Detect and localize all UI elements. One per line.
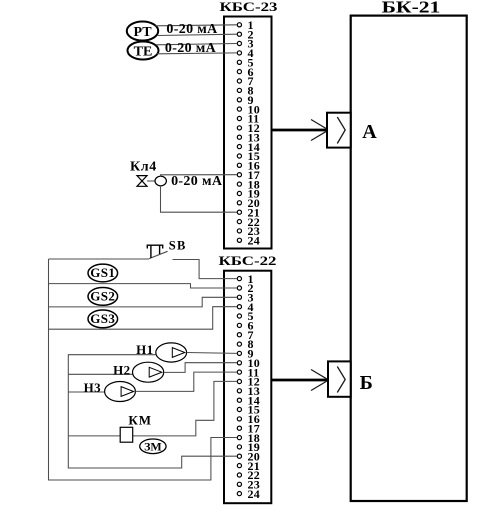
wire Kl4 to 21 (161, 186, 238, 212)
wire H1 to 9 (187, 352, 237, 355)
terminal КБС-22 pin 12 (237, 379, 241, 383)
terminal КБС-23 pin 2 (237, 32, 241, 36)
block KBS-22 (219, 255, 277, 504)
terminal КБС-22 pin 19 (237, 445, 241, 449)
wire GS3 to 4 (49, 307, 238, 330)
sensor GS2 (88, 288, 118, 306)
terminal КБС-22 pin 4 (237, 305, 241, 309)
svg-text:SB: SB (169, 239, 187, 253)
terminal КБС-23 pin 24 (237, 238, 241, 242)
terminal КБС-23 pin 8 (237, 88, 241, 92)
terminal КБС-22 pin 6 (237, 323, 241, 327)
arrow B (271, 361, 373, 396)
pump H1 (136, 342, 187, 362)
terminal КБС-22 pin 14 (237, 398, 241, 402)
svg-text:GS3: GS3 (90, 311, 115, 326)
terminal КБС-23 pin 1 (237, 23, 241, 27)
svg-text:РТ: РТ (133, 25, 152, 40)
terminal КБС-23 pin 9 (237, 98, 241, 102)
wire to H3 (68, 391, 104, 393)
wire valve-actuator (147, 180, 155, 182)
terminal КБС-22 pin 20 (237, 454, 241, 458)
wire SB to terminal 1 (173, 260, 238, 279)
wire PT to 2 (157, 34, 237, 35)
terminal КБС-23 pin 3 (237, 41, 241, 45)
svg-text:Н1: Н1 (136, 342, 153, 357)
terminal КБС-23 pin 12 (237, 126, 241, 130)
wire TE to 4 (157, 52, 237, 55)
sensor TE (128, 42, 159, 60)
svg-text:Б: Б (360, 372, 373, 394)
inner bus wire (68, 355, 237, 468)
terminal КБС-22 pin 7 (237, 333, 241, 337)
sensor PT (127, 22, 158, 41)
block KBS-23 (220, 1, 279, 249)
terminal КБС-22 pin 5 (237, 314, 241, 318)
terminal КБС-23 pin 13 (237, 135, 241, 139)
terminal КБС-23 pin 16 (237, 163, 241, 167)
terminal КБС-22 pin 23 (237, 482, 241, 486)
terminal КБС-23 pin 6 (237, 70, 241, 74)
terminal КБС-23 pin 23 (237, 229, 241, 233)
terminal КБС-23 pin 4 (237, 51, 241, 55)
sensor GS1 (88, 264, 118, 282)
svg-text:ТЕ: ТЕ (134, 45, 153, 60)
pump H2 (113, 362, 164, 382)
svg-text:Н3: Н3 (84, 380, 102, 395)
terminal КБС-23 pin 10 (237, 107, 241, 111)
terminal КБС-23 pin 21 (237, 210, 241, 214)
wire PT to 1 (156, 25, 238, 26)
svg-text:КБС-23: КБС-23 (220, 1, 279, 15)
arrow A (272, 113, 378, 148)
terminal КБС-22 pin 18 (237, 436, 241, 440)
terminal КБС-23 pin 11 (237, 116, 241, 120)
svg-text:БК-21: БК-21 (382, 0, 441, 17)
svg-text:0-20 мА: 0-20 мА (171, 174, 223, 189)
terminal КБС-22 pin 3 (237, 295, 241, 299)
terminal КБС-22 pin 24 (237, 492, 241, 496)
svg-text:GS1: GS1 (90, 265, 115, 280)
terminal КБС-22 pin 11 (237, 370, 241, 374)
contactor KM (120, 412, 152, 442)
terminal КБС-23 pin 15 (237, 154, 241, 158)
svg-text:КМ: КМ (128, 412, 152, 427)
terminal КБС-23 pin 19 (237, 191, 241, 195)
svg-text:0-20 мА: 0-20 мА (165, 41, 217, 56)
terminal КБС-22 pin 2 (237, 286, 241, 290)
svg-text:ЗМ: ЗМ (144, 440, 162, 454)
sensor GS3 (88, 310, 118, 328)
wire GS2 to 3 (49, 297, 238, 307)
svg-text:А: А (362, 121, 377, 143)
wire GS1 to 2 (49, 284, 238, 288)
switch SB contact (149, 251, 168, 258)
wire to H2 (68, 373, 132, 375)
terminal КБС-22 pin 15 (237, 407, 241, 411)
wire to KM (68, 435, 120, 437)
switch SB leads (49, 258, 150, 260)
terminal КБС-22 pin 21 (237, 464, 241, 468)
terminal КБС-23 pin 14 (237, 145, 241, 149)
terminal КБС-22 pin 1 (237, 277, 241, 281)
pump H3 (84, 380, 136, 402)
valve Kl4 (137, 176, 147, 187)
terminal КБС-22 pin 13 (237, 389, 241, 393)
wire Kl4 to 17 (161, 175, 238, 177)
svg-text:GS2: GS2 (90, 288, 115, 303)
switch SB actuator (147, 245, 162, 258)
terminal КБС-22 pin 16 (237, 417, 241, 421)
terminal КБС-23 pin 5 (237, 60, 241, 64)
terminal КБС-22 pin 9 (237, 351, 241, 355)
svg-text:24: 24 (248, 487, 261, 501)
terminal КБС-23 pin 22 (237, 220, 241, 224)
actuator circle (155, 176, 166, 186)
terminal КБС-23 pin 20 (237, 201, 241, 205)
terminal КБС-22 pin 10 (237, 361, 241, 365)
terminal КБС-23 pin 7 (237, 79, 241, 83)
terminal КБС-22 pin 17 (237, 426, 241, 430)
svg-text:0-20 мА: 0-20 мА (166, 22, 218, 37)
terminal КБС-23 pin 17 (237, 173, 241, 177)
terminals KBS-23 (237, 18, 260, 248)
svg-text:КБС-22: КБС-22 (219, 255, 277, 269)
wire 12 to KM (133, 381, 237, 436)
motor ZM (140, 439, 166, 454)
wire H3 to 11 (135, 372, 237, 391)
wire TE to 3 (156, 44, 237, 45)
wire H2 to 10 (164, 363, 237, 373)
block BK-21 (351, 0, 467, 501)
terminal КБС-22 pin 8 (237, 342, 241, 346)
terminal КБС-23 pin 18 (237, 182, 241, 186)
svg-text:24: 24 (248, 234, 261, 248)
terminal КБС-22 pin 22 (237, 473, 241, 477)
outer bus wire (49, 259, 238, 480)
svg-text:Кл4: Кл4 (130, 160, 157, 175)
svg-text:Н2: Н2 (113, 363, 130, 378)
